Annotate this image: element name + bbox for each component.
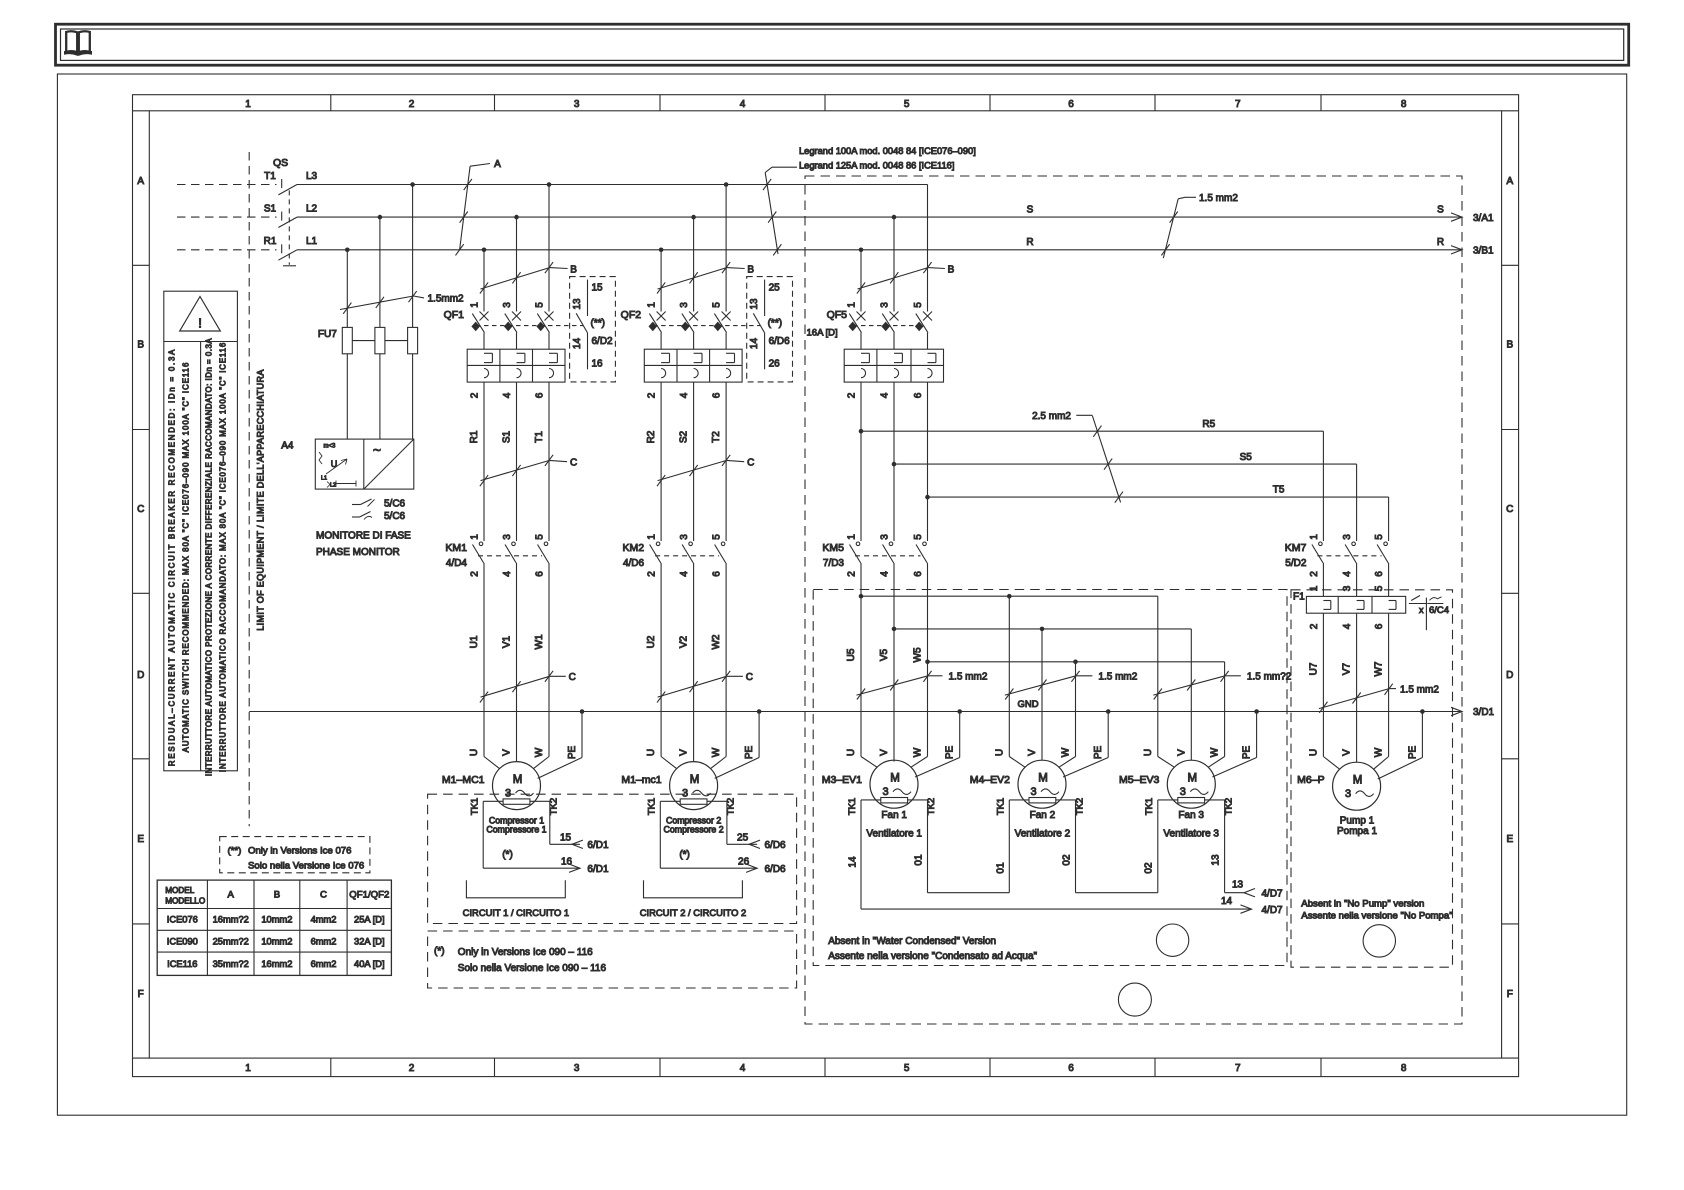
svg-text:E: E <box>1506 834 1513 845</box>
PE junction fan 1 <box>957 709 962 714</box>
svg-text:B: B <box>137 340 144 351</box>
svg-text:13: 13 <box>572 298 583 310</box>
column header band dividers bottom <box>331 1058 1321 1077</box>
svg-text:4/D6: 4/D6 <box>623 558 645 569</box>
svg-text:M3–EV1: M3–EV1 <box>822 774 862 786</box>
svg-text:Compressore 1: Compressore 1 <box>486 825 546 835</box>
svg-text:ICE076: ICE076 <box>167 915 198 925</box>
svg-text:3/A1: 3/A1 <box>1473 213 1494 224</box>
QF1 feeder junctions <box>482 182 552 252</box>
svg-text:U: U <box>846 749 857 756</box>
svg-text:C: C <box>747 458 754 469</box>
note box (**) versions <box>220 837 370 873</box>
PE junction fan 3 <box>1254 709 1259 714</box>
svg-text:3: 3 <box>882 786 888 798</box>
svg-text:TK1: TK1 <box>847 798 858 815</box>
motor M1-mc1 <box>621 762 717 810</box>
svg-text:3: 3 <box>574 99 580 110</box>
svg-text:PHASE MONITOR: PHASE MONITOR <box>316 547 400 558</box>
svg-text:TK1: TK1 <box>470 798 481 815</box>
svg-text:6: 6 <box>1068 1063 1074 1074</box>
svg-text:Only in Versions Ice 076: Only in Versions Ice 076 <box>248 846 351 857</box>
svg-text:3: 3 <box>679 534 690 540</box>
svg-text:14: 14 <box>572 338 583 350</box>
svg-text:V: V <box>1027 749 1038 756</box>
cable marker C KM2-motor <box>657 671 753 703</box>
svg-text:TK2: TK2 <box>1224 798 1235 815</box>
svg-text:V5: V5 <box>879 648 890 661</box>
svg-text:25: 25 <box>737 833 749 844</box>
fan 1 wire bends <box>861 712 960 778</box>
svg-text:5: 5 <box>904 99 910 110</box>
circuit breaker QF1 poles <box>470 302 554 333</box>
air condensed section dashed box <box>805 176 1462 1024</box>
drawing frame outer border <box>133 95 1519 1077</box>
pump caption <box>1337 816 1377 838</box>
svg-text:02: 02 <box>1062 854 1073 866</box>
svg-text:M5–EV3: M5–EV3 <box>1119 774 1159 786</box>
line T5 to KM7 <box>928 485 1389 542</box>
svg-text:Legrand 100A mod. 0048 84 [ICE: Legrand 100A mod. 0048 84 [ICE076–090] <box>799 146 976 156</box>
svg-text:1.5 mm2: 1.5 mm2 <box>1098 672 1137 683</box>
svg-text:L1: L1 <box>306 236 318 247</box>
fan 1 terminal labels <box>846 746 956 760</box>
fan motor M3–EV1 <box>822 760 918 808</box>
hole mark circle water section <box>1156 924 1188 956</box>
svg-text:5: 5 <box>535 302 546 308</box>
svg-text:PE: PE <box>567 746 578 760</box>
svg-text:6: 6 <box>913 571 924 577</box>
fan TK daisy chain wiring <box>861 800 1225 893</box>
svg-text:Pompa 1: Pompa 1 <box>1337 826 1377 837</box>
note text (*) <box>434 946 606 974</box>
svg-text:6: 6 <box>913 392 924 398</box>
svg-text:3: 3 <box>505 787 511 799</box>
model table row ICE116 <box>167 959 384 969</box>
QF2 pole output pins <box>647 392 723 398</box>
svg-text:5: 5 <box>712 534 723 540</box>
svg-text:25: 25 <box>769 283 781 294</box>
svg-text:W: W <box>1061 747 1072 757</box>
svg-text:M: M <box>513 774 523 786</box>
QF5 pole output pins <box>847 392 925 398</box>
QF5 trip linkage <box>853 325 920 327</box>
model table <box>157 880 391 975</box>
svg-text:E: E <box>137 834 144 845</box>
svg-text:TK1: TK1 <box>647 798 658 815</box>
fan motor M4–EV2 <box>970 760 1066 808</box>
svg-text:T5: T5 <box>1273 485 1285 496</box>
PE junction compressor 2 <box>757 709 762 714</box>
svg-text:M: M <box>690 774 700 786</box>
protective earth PE line <box>249 707 1494 718</box>
svg-text:25mm?2: 25mm?2 <box>213 936 249 946</box>
svg-text:U: U <box>1308 749 1319 756</box>
svg-text:1: 1 <box>847 302 858 308</box>
FU7 wires <box>347 185 412 440</box>
svg-text:3: 3 <box>1342 585 1353 591</box>
svg-text:B: B <box>570 264 577 275</box>
svg-text:L2: L2 <box>330 483 336 489</box>
svg-text:T1: T1 <box>264 171 276 182</box>
QF1 feeder wires <box>484 185 549 312</box>
svg-text:Ventilatore 2: Ventilatore 2 <box>1015 828 1071 839</box>
cable marker 1.5 mm2 pump <box>1319 684 1439 713</box>
fan phase bus W <box>925 563 1224 757</box>
svg-text:7: 7 <box>1235 1063 1241 1074</box>
svg-text:R1: R1 <box>264 236 277 247</box>
svg-text:M1–mc1: M1–mc1 <box>621 774 661 786</box>
cable marker 1.5 mm2 fan 2 <box>1005 671 1138 700</box>
svg-text:U: U <box>469 749 480 756</box>
svg-text:2: 2 <box>647 392 658 398</box>
svg-text:4: 4 <box>880 392 891 398</box>
svg-text:QF5: QF5 <box>827 309 848 321</box>
limit of equipment dashed boundary <box>248 152 250 826</box>
circuit breaker QF1 <box>444 309 465 321</box>
svg-text:R: R <box>1026 237 1033 248</box>
svg-text:13: 13 <box>1211 854 1222 866</box>
svg-text:V7: V7 <box>1342 662 1353 675</box>
svg-text:5: 5 <box>1374 534 1385 540</box>
svg-text:4: 4 <box>1342 571 1353 577</box>
svg-text:M: M <box>1038 773 1048 785</box>
svg-text:16A [D]: 16A [D] <box>807 328 838 339</box>
KM7 to F1 wires <box>1309 563 1389 596</box>
svg-text:U: U <box>646 749 657 756</box>
svg-text:A: A <box>227 890 234 901</box>
svg-text:1.5 mm2: 1.5 mm2 <box>949 672 988 683</box>
svg-text:QS: QS <box>273 157 288 169</box>
svg-text:3: 3 <box>1342 534 1353 540</box>
svg-text:16mm?2: 16mm?2 <box>213 915 249 925</box>
svg-text:C: C <box>570 458 577 469</box>
pump wire bends <box>1323 712 1422 780</box>
svg-text:3: 3 <box>880 534 891 540</box>
svg-text:W5: W5 <box>913 647 924 662</box>
svg-text:V: V <box>679 749 690 756</box>
svg-text:(**): (**) <box>228 846 242 857</box>
warning notes box <box>164 291 238 771</box>
svg-text:3: 3 <box>574 1063 580 1074</box>
R5 S5 T5 junctions <box>859 429 930 500</box>
cable marker 1.5 mm2 fan 1 <box>857 671 988 700</box>
svg-text:3: 3 <box>682 787 688 799</box>
svg-text:1.5mm2: 1.5mm2 <box>428 294 465 305</box>
svg-text:RESIDUAL–CURRENT AUTOMATIC CIR: RESIDUAL–CURRENT AUTOMATIC CIRCUIT BREAK… <box>168 348 177 766</box>
svg-text:Compressore 2: Compressore 2 <box>664 825 724 835</box>
motor M1-MC1 wires <box>484 563 582 778</box>
svg-text:6/D6: 6/D6 <box>765 840 787 851</box>
motor M1-mc1 wires <box>661 563 759 778</box>
pump motor M6-P <box>1297 762 1380 810</box>
svg-text:V: V <box>879 749 890 756</box>
svg-text:ICE116: ICE116 <box>167 959 197 969</box>
svg-text:6mm2: 6mm2 <box>311 959 337 969</box>
pump section dashed box <box>1291 590 1453 967</box>
svg-text:1: 1 <box>245 1063 251 1074</box>
svg-text:5: 5 <box>712 302 723 308</box>
svg-text:6: 6 <box>712 392 723 398</box>
svg-text:1: 1 <box>1309 585 1320 591</box>
svg-text:Legrand 125A mod. 0048 86 [ICE: Legrand 125A mod. 0048 86 [ICE116] <box>799 161 954 171</box>
QF1 wires to overload <box>484 333 549 350</box>
svg-text:S2: S2 <box>679 430 690 443</box>
svg-text:Solo nella Versione Ice 076: Solo nella Versione Ice 076 <box>248 861 364 872</box>
QF5 feeder junctions <box>859 215 897 252</box>
svg-text:R2: R2 <box>646 430 657 443</box>
no pump absence note <box>1301 898 1452 921</box>
svg-text:PE: PE <box>1093 746 1104 760</box>
svg-text:6/C4: 6/C4 <box>1429 605 1449 616</box>
svg-text:1.5 mm2: 1.5 mm2 <box>1400 684 1439 695</box>
svg-text:W2: W2 <box>711 634 722 649</box>
compressor 1 TK wiring <box>483 801 609 875</box>
svg-text:4: 4 <box>502 392 513 398</box>
svg-text:L3: L3 <box>306 171 318 182</box>
svg-text:6/D2: 6/D2 <box>592 336 614 347</box>
fan 2 terminal labels <box>994 746 1104 760</box>
svg-text:QF1: QF1 <box>444 309 465 321</box>
row letter dividers right <box>1502 265 1519 924</box>
svg-text:2: 2 <box>847 392 858 398</box>
fan 2 TK labels <box>995 798 1085 815</box>
cable marker B at QF5 <box>857 262 955 294</box>
fuse FU7 <box>318 327 418 353</box>
svg-text:V1: V1 <box>502 635 513 648</box>
svg-text:3/B1: 3/B1 <box>1473 246 1494 257</box>
svg-text:FU7: FU7 <box>318 329 337 340</box>
svg-text:U: U <box>331 459 338 469</box>
cable marker C QF2-KM2 <box>657 455 754 486</box>
svg-text:F: F <box>138 989 144 1000</box>
svg-text:3: 3 <box>880 302 891 308</box>
svg-text:m<3: m<3 <box>324 444 337 450</box>
svg-text:~: ~ <box>373 442 381 458</box>
svg-text:W: W <box>534 747 545 757</box>
svg-text:5: 5 <box>904 1063 910 1074</box>
svg-text:1: 1 <box>245 99 251 110</box>
svg-text:B: B <box>948 264 955 275</box>
hole mark circle pump section <box>1363 925 1395 957</box>
svg-text:5: 5 <box>913 534 924 540</box>
cable marker 1.5mm2 on FU7 wires <box>340 291 464 314</box>
note box (*) versions <box>428 931 797 988</box>
svg-text:1.5 mm?2: 1.5 mm?2 <box>1247 672 1292 683</box>
bus line L1 / R <box>297 249 1462 251</box>
svg-text:M6–P: M6–P <box>1297 774 1324 786</box>
QF2 auxiliary contact box <box>747 277 793 382</box>
svg-text:(**): (**) <box>591 318 605 329</box>
svg-text:Ventilatore 1: Ventilatore 1 <box>866 828 922 839</box>
svg-text:x: x <box>1419 605 1424 615</box>
svg-text:W1: W1 <box>534 634 545 649</box>
svg-text:S1: S1 <box>264 204 277 215</box>
svg-text:Fan 1: Fan 1 <box>881 810 907 821</box>
svg-text:14: 14 <box>749 338 760 350</box>
contactor KM2 <box>623 534 726 577</box>
svg-text:15: 15 <box>592 283 604 294</box>
svg-text:16mm2: 16mm2 <box>261 959 292 969</box>
svg-text:PE: PE <box>744 746 755 760</box>
KM2 output labels U2 V2 W2 <box>646 634 722 649</box>
svg-text:7/D3: 7/D3 <box>823 558 845 569</box>
svg-text:Fan 3: Fan 3 <box>1178 810 1204 821</box>
svg-text:M1–MC1: M1–MC1 <box>442 774 485 786</box>
svg-text:V: V <box>1342 749 1353 756</box>
svg-text:6: 6 <box>535 571 546 577</box>
svg-text:6: 6 <box>1068 99 1074 110</box>
svg-text:1: 1 <box>470 302 481 308</box>
svg-text:W: W <box>1210 747 1221 757</box>
phase monitor A4 <box>281 439 414 489</box>
svg-text:3: 3 <box>502 302 513 308</box>
svg-text:A: A <box>137 176 144 187</box>
svg-text:3: 3 <box>1345 788 1351 800</box>
svg-text:4/D4: 4/D4 <box>446 558 468 569</box>
fan chain return 13 to 4/D7 <box>1225 800 1283 900</box>
svg-text:PE: PE <box>1407 746 1418 760</box>
column header band dividers top <box>331 95 1321 111</box>
svg-text:4: 4 <box>740 1063 746 1074</box>
column numbers bottom <box>245 1063 1407 1074</box>
svg-text:5/C6: 5/C6 <box>384 499 406 510</box>
QF1 pole output pins <box>470 392 546 398</box>
svg-text:PE: PE <box>1242 746 1253 760</box>
svg-text:A4: A4 <box>281 441 294 452</box>
overload relay F1 <box>1293 592 1406 614</box>
hole mark circle bottom <box>1118 983 1151 1016</box>
svg-text:4: 4 <box>1342 623 1353 629</box>
cable marker C QF1-KM1 <box>480 455 577 486</box>
QF2 wires to overload <box>661 333 726 350</box>
cable marker 1.5 mm2 on S R lines <box>1161 193 1238 258</box>
svg-text:01: 01 <box>914 854 925 866</box>
svg-text:4mm2: 4mm2 <box>311 915 337 925</box>
motor M1-MC1 terminal labels <box>469 746 578 760</box>
svg-text:W: W <box>913 747 924 757</box>
QF5 thermal overload block <box>844 349 943 382</box>
svg-text:M4–EV2: M4–EV2 <box>970 774 1010 786</box>
warning text italian <box>205 338 228 776</box>
svg-text:5: 5 <box>913 302 924 308</box>
svg-text:KM7: KM7 <box>1285 542 1307 554</box>
svg-text:1: 1 <box>847 534 858 540</box>
svg-text:4: 4 <box>679 571 690 577</box>
svg-text:15: 15 <box>560 833 572 844</box>
svg-text:CIRCUIT 1 / CIRCUITO 1: CIRCUIT 1 / CIRCUITO 1 <box>463 907 569 918</box>
compressor 2 thermal contact TK labels <box>647 798 737 815</box>
svg-text:2: 2 <box>847 571 858 577</box>
svg-text:5/D2: 5/D2 <box>1285 558 1307 569</box>
svg-text:TK1: TK1 <box>995 798 1006 815</box>
svg-text:(*): (*) <box>679 850 690 861</box>
svg-text:U5: U5 <box>846 648 857 661</box>
svg-text:4/D7: 4/D7 <box>1262 905 1284 916</box>
svg-text:S1: S1 <box>502 430 513 443</box>
svg-text:INTERRUTTORE AUTOMATICO PROTEZ: INTERRUTTORE AUTOMATICO PROTEZIONE A COR… <box>205 338 214 776</box>
phase monitor captions <box>316 531 411 559</box>
compressor 1 thermal contact TK labels <box>470 798 560 815</box>
svg-text:01: 01 <box>996 862 1007 874</box>
svg-text:A: A <box>494 159 501 170</box>
svg-text:16: 16 <box>561 857 573 868</box>
compressor 1 thermal protector <box>503 799 530 804</box>
compressor 2 TK wiring <box>660 801 786 875</box>
circuit 1 bracket <box>463 880 569 918</box>
model table row ICE090 <box>167 936 385 946</box>
contactor KM5 <box>822 534 927 577</box>
F1 output pins <box>1309 623 1385 629</box>
fan 2 wire bends <box>1009 712 1108 778</box>
row letter dividers left <box>133 265 150 924</box>
QF5 output wires <box>861 382 928 541</box>
svg-text:1: 1 <box>647 534 658 540</box>
svg-text:6: 6 <box>712 571 723 577</box>
svg-text:1: 1 <box>647 302 658 308</box>
svg-text:C: C <box>137 504 144 515</box>
QF2 feeder wires <box>661 185 726 312</box>
header band edge segments <box>133 111 1519 1058</box>
QF5 feeder wires <box>861 185 928 312</box>
svg-text:(**): (**) <box>768 318 782 329</box>
cable marker 2.5 mm2 on R5 S5 T5 <box>1032 411 1123 503</box>
svg-text:40A [D]: 40A [D] <box>354 959 385 969</box>
svg-text:13: 13 <box>749 298 760 310</box>
fan 3 TK labels <box>1144 798 1235 815</box>
incoming supply dashed feeders <box>177 185 277 250</box>
svg-text:Pump 1: Pump 1 <box>1340 816 1375 827</box>
svg-text:Fan 2: Fan 2 <box>1030 810 1056 821</box>
svg-text:B: B <box>1506 340 1513 351</box>
fan TK pin labels <box>848 854 1222 874</box>
svg-text:Only in Versions Ice 090 – 116: Only in Versions Ice 090 – 116 <box>458 947 593 958</box>
compressor 2 label <box>664 816 724 861</box>
svg-text:32A [D]: 32A [D] <box>354 936 385 946</box>
svg-text:2: 2 <box>1309 571 1320 577</box>
F1 trip contact reference <box>1409 596 1449 631</box>
svg-text:S: S <box>1437 205 1444 216</box>
main switch QS <box>264 157 318 266</box>
model table row ICE076 <box>167 915 385 925</box>
svg-text:QF2: QF2 <box>621 309 642 321</box>
svg-text:R: R <box>1437 237 1444 248</box>
water condensed absence note <box>828 936 1037 962</box>
warning triangle <box>180 297 221 332</box>
QF1 output wires R1 S1 T1 <box>469 382 549 541</box>
row letters right <box>1506 176 1513 1000</box>
svg-text:U1: U1 <box>469 635 480 648</box>
svg-text:V: V <box>502 749 513 756</box>
svg-text:TK2: TK2 <box>1075 798 1086 815</box>
QF2 thermal overload block <box>644 349 742 382</box>
fan motor M5–EV3 <box>1119 760 1215 808</box>
svg-text:(*): (*) <box>434 946 445 957</box>
svg-text:1: 1 <box>470 534 481 540</box>
svg-text:6/D1: 6/D1 <box>587 864 609 875</box>
bus line L3 <box>297 184 928 186</box>
svg-text:14: 14 <box>848 856 859 868</box>
svg-text:V2: V2 <box>679 635 690 648</box>
KM1 output labels U1 V1 W1 <box>469 634 545 649</box>
svg-text:6: 6 <box>1374 571 1385 577</box>
svg-text:!: ! <box>198 316 202 331</box>
svg-text:C: C <box>320 890 327 901</box>
svg-text:U: U <box>1143 749 1154 756</box>
svg-text:ICE090: ICE090 <box>167 936 198 946</box>
svg-text:W: W <box>1374 747 1385 757</box>
fan 1 TK labels <box>847 798 937 815</box>
